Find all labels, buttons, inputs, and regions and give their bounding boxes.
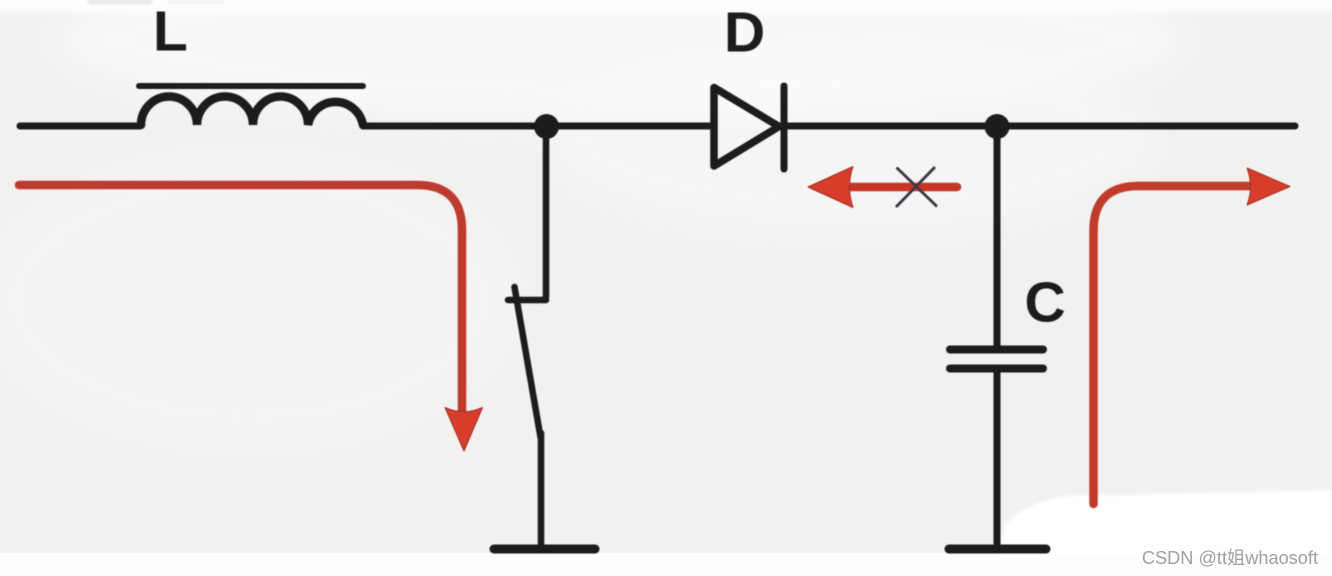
capacitor C bottom plate — [950, 365, 1043, 373]
inductor L windings — [141, 97, 363, 126]
red input current arrowhead — [445, 408, 483, 452]
red output current arrowhead — [1247, 168, 1290, 205]
wire input left — [20, 123, 140, 130]
diode D cathode bar — [781, 86, 788, 169]
svg-text:C: C — [1025, 271, 1066, 335]
svg-text:CSDN @tt姐whaosoft: CSDN @tt姐whaosoft — [1142, 548, 1318, 568]
capacitor lower wire — [994, 372, 1001, 545]
red blocked current shaft — [849, 183, 957, 192]
node junction dot at capacitor — [985, 114, 1010, 139]
inductor L core bar — [139, 83, 363, 89]
node junction dot at switch — [534, 114, 559, 139]
ground (capacitor) — [949, 545, 1046, 554]
wire inductor to diode — [363, 123, 710, 130]
capacitor C top plate — [950, 346, 1043, 354]
wire diode to output — [781, 123, 1295, 130]
switch step wire — [508, 297, 546, 304]
svg-text:L: L — [153, 0, 188, 64]
red output current path — [1094, 186, 1253, 504]
switch lower wire — [538, 433, 545, 545]
red input current path — [19, 185, 462, 414]
switch blade — [515, 287, 541, 437]
ground (switch) — [494, 545, 595, 554]
switch upper wire — [543, 136, 550, 297]
red blocked current arrowhead — [808, 167, 853, 208]
diode D triangle — [714, 88, 779, 167]
X cross (blocked) — [896, 167, 937, 207]
capacitor upper wire — [994, 136, 1001, 346]
svg-text:D: D — [724, 1, 765, 65]
